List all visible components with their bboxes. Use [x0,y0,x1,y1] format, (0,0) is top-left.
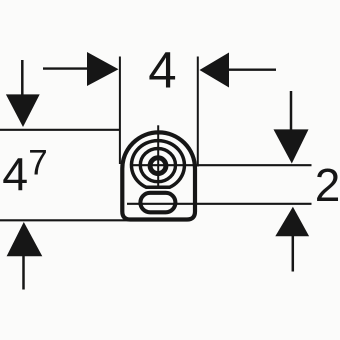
svg-text:7: 7 [28,144,47,183]
bracket outline [122,132,195,219]
slot [140,193,175,213]
dimension line 47 top [0,129,121,131]
svg-text:2: 2 [315,159,340,211]
dimension line 47 bottom [0,219,160,221]
crosshair vertical [157,125,159,189]
arrow left top [200,53,277,88]
arrow down right [274,91,309,164]
arrow down top-left [6,60,40,127]
center line through circles (dimension 2 top) [131,164,312,166]
arrow up bottom-left [7,222,43,290]
arrow right top [43,52,119,86]
center line through slot (dimension 2 bottom) [127,203,312,205]
svg-text:4: 4 [2,148,28,200]
arrow up right [275,207,309,272]
outer ring flat-bottom [131,141,184,188]
inner thick ring [150,158,166,174]
extension line right of width 4 [197,57,199,167]
extension line left of width 4 [119,57,121,165]
middle ring [140,149,175,182]
svg-text:4: 4 [148,42,176,99]
